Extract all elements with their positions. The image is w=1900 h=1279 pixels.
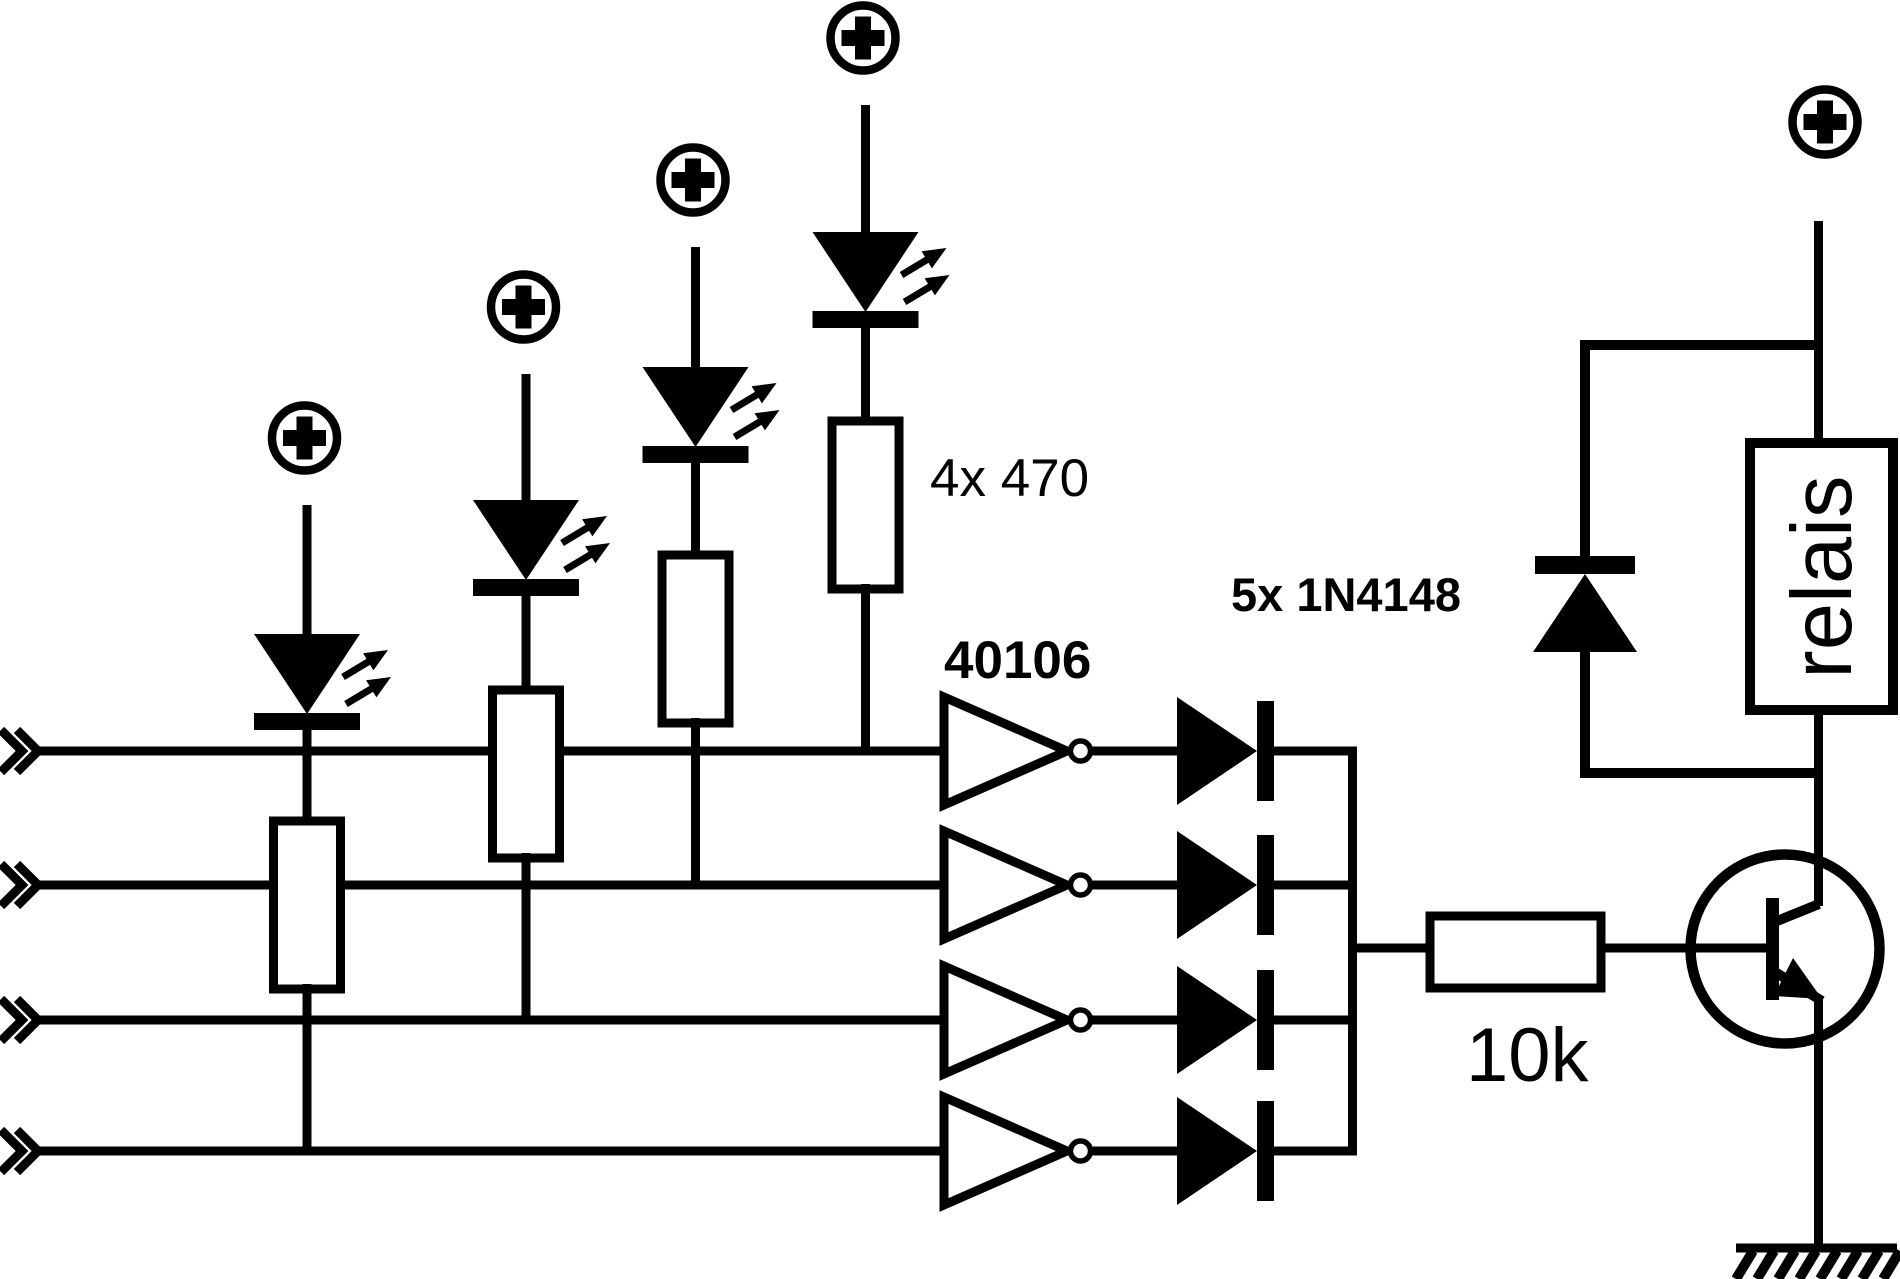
inverter U1B (40106) <box>944 831 1091 939</box>
input connector J2 <box>1 864 38 906</box>
wire LED3 to R3 <box>691 461 700 560</box>
svg-text:40106: 40106 <box>944 631 1091 690</box>
wire D4 to OR bus <box>1274 1147 1357 1156</box>
inverter U1D (40106) <box>944 1097 1091 1205</box>
input connector J4 <box>1 1130 38 1172</box>
wire input line 3 <box>33 1016 944 1025</box>
wire flyback top branch <box>1585 345 1818 560</box>
wire R4 to input line 1 <box>861 584 870 751</box>
wire LED2 to R2 <box>522 594 531 695</box>
transistor Q1 (NPN) <box>1691 855 1880 1044</box>
wire R3 to input line 2 <box>691 718 700 885</box>
wire +V to LED2 <box>522 374 531 506</box>
diode D5 1N4148 (flyback) <box>1533 556 1637 652</box>
wire LED4 to R4 <box>861 326 870 426</box>
wire +V to relay K1 <box>1814 221 1823 447</box>
resistor R4 470 <box>832 421 899 589</box>
resistor R3 470 <box>662 555 729 723</box>
power +V symbol P2 (chain 2) <box>491 275 556 340</box>
power +V symbol P4 (chain 4) <box>831 6 896 71</box>
diode D2 1N4148 <box>1177 831 1274 939</box>
power +V symbol P5 (relay supply) <box>1793 90 1858 155</box>
wire flyback bottom branch <box>1585 648 1818 773</box>
LED LED2 <box>473 500 610 596</box>
wire U1A output to D1 <box>1093 747 1182 756</box>
node OR bus (wired-OR) <box>1348 747 1357 1156</box>
resistor R2 470 <box>493 690 560 858</box>
wire R5 to Q1 base <box>1601 944 1768 953</box>
wire U1B output to D2 <box>1093 881 1182 890</box>
svg-text:relais: relais <box>1775 475 1870 678</box>
resistor R5 10k <box>1430 916 1601 988</box>
LED LED3 <box>643 367 780 463</box>
input connector J3 <box>1 999 38 1041</box>
resistor R1 470 <box>274 821 341 989</box>
wire +V to LED1 <box>303 505 312 640</box>
wire U1C output to D3 <box>1093 1016 1182 1025</box>
power +V symbol P1 (chain 1) <box>272 406 337 471</box>
wire D2 to OR bus <box>1274 881 1357 890</box>
wire LED1 to R1 <box>303 728 312 826</box>
diode D3 1N4148 <box>1177 966 1274 1074</box>
relay K1 coil <box>1750 443 1893 710</box>
wire input line 1 <box>33 747 944 756</box>
wire +V to LED3 <box>691 247 700 373</box>
wire input line 2 <box>33 881 944 890</box>
input connector J1 <box>1 730 38 772</box>
svg-text:10k: 10k <box>1466 1013 1590 1098</box>
diode D4 1N4148 <box>1177 1097 1274 1205</box>
svg-text:5x 1N4148: 5x 1N4148 <box>1231 568 1461 621</box>
LED LED1 <box>254 634 391 730</box>
wire relay to Q1 collector <box>1814 706 1823 906</box>
wire Q1 emitter to ground <box>1814 999 1823 1248</box>
diode D1 1N4148 <box>1177 697 1274 805</box>
wire R2 to input line 3 <box>522 853 531 1020</box>
ground <box>1736 1248 1900 1279</box>
inverter U1A (40106) <box>944 697 1091 805</box>
wire +V to LED4 <box>861 105 870 238</box>
wire bus to R5 <box>1353 944 1435 953</box>
wire input line 4 <box>33 1147 944 1156</box>
wire D3 to OR bus <box>1274 1016 1357 1025</box>
wire R1 to input line 4 <box>303 984 312 1151</box>
svg-text:4x 470: 4x 470 <box>930 449 1089 508</box>
wire D1 to OR bus <box>1274 747 1357 756</box>
inverter U1C (40106) <box>944 966 1091 1074</box>
LED LED4 <box>813 232 950 328</box>
power +V symbol P3 (chain 3) <box>661 148 726 213</box>
wire U1D output to D4 <box>1093 1147 1182 1156</box>
